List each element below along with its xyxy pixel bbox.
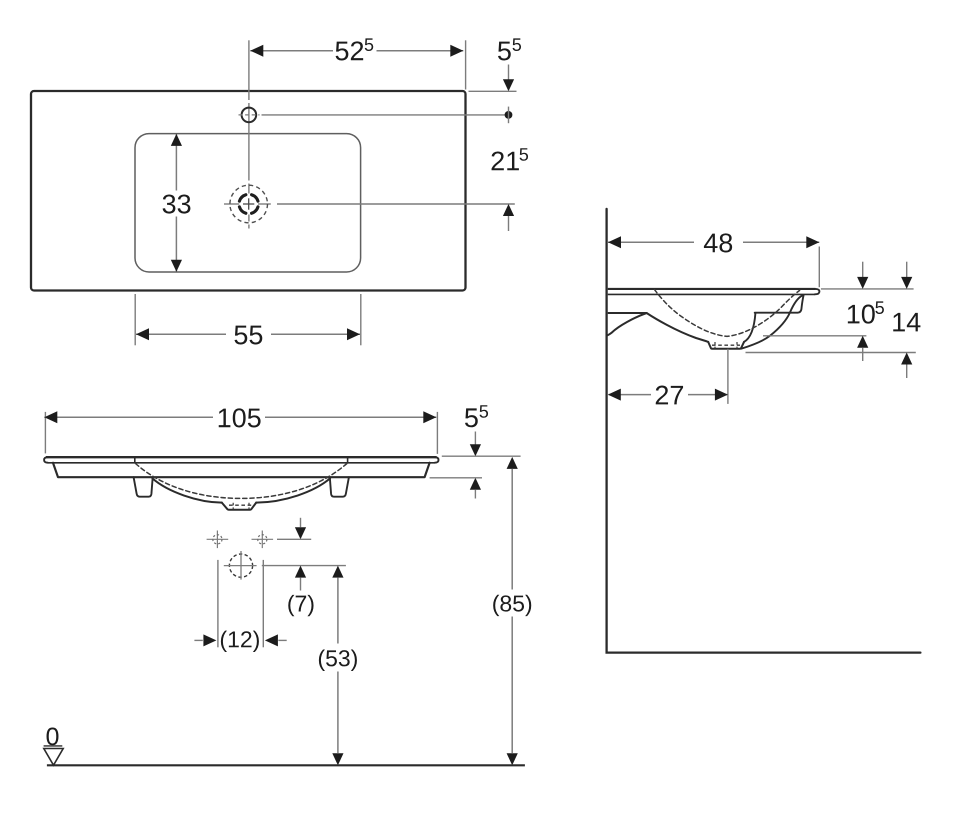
front view: bowl edge tick right [347,457,349,463]
dim 27: dimension line [609,394,652,396]
dim (12): right arrow tail [278,639,286,641]
dim 14: up arrow tail [906,365,908,379]
dim 27: right arrow [715,389,728,401]
dim 55: left extension line [134,294,136,345]
top view: drain inner arcs [252,207,258,213]
dim (7): arrow tail [300,578,302,591]
dim 33: dimension line [175,134,177,190]
side view: hidden bowl inner surface [655,290,800,337]
dim 5.5 front: up arrow [470,478,481,490]
dim 105: label [219,409,231,428]
front view: body bottom extension line [430,477,482,479]
tap hole level tick [508,107,510,124]
front view: left foot [134,477,153,497]
dim 105: right arrow [423,411,436,423]
front view: rim top edge [46,456,437,458]
side view: drain boss [708,342,744,349]
datum 0: triangle symbol [44,749,63,766]
side view: wall bracket [607,313,647,335]
top view: tap hole circle [242,108,257,123]
dim 10.5: label [848,305,860,324]
front view: right foot [330,477,349,497]
dim 5.5 top: extension of rect top edge [469,90,517,92]
dim 5.5 front: down arrow [470,444,481,456]
dim (85): label [493,595,499,616]
top view: washbasin outer rectangle [31,91,466,291]
front view: drain hidden circle [229,554,252,577]
front view: drain boss [222,503,256,510]
top view: drain horizontal center line [224,203,239,205]
top view: tap hole horizontal center dashes [239,114,260,116]
dim 48: label [704,234,718,253]
fixing hole level: down arrow [295,527,306,539]
dim (85): up arrow [507,457,518,469]
bowl bottom reference line [763,335,866,337]
front view: left fixing hole [207,538,229,540]
dim 105: left extension line [44,412,46,454]
dim 5.5 front: arrow tail [474,432,476,445]
side view: rim front end cap [815,289,820,294]
dim 5.5 front: label [465,408,478,427]
front view: hidden bowl inner surface [136,464,347,499]
datum 0: underline [44,745,63,747]
front view: rim underside edge [48,462,435,464]
front view: hidden drain outlet dashes [229,504,253,506]
front view: bowl outer surface right [256,478,330,502]
dim (12): left extension line [217,560,219,647]
dim 10.5: down arrow tail [862,262,864,277]
dim (53): dimension line [337,578,339,644]
dim 52.5: extension line right [465,40,467,89]
dim (12): left arrow tail [194,639,202,641]
dim (53): down arrow [332,753,343,765]
dim 21.5: arrow tail [508,216,510,231]
front view: drain center cross [224,565,257,567]
side view: drain center line [727,349,729,404]
front view: body outline [53,463,430,477]
dim 105: dimension line [44,416,213,418]
side view: rim top edge [608,288,816,290]
front view: bowl outer surface left [152,478,221,502]
dim 33: label [163,194,176,213]
front view: bowl edge tick left [134,457,136,463]
dim 14: down arrow [901,277,912,289]
dim 48: extension line [818,247,820,288]
drain level reference line [262,565,346,567]
side view: rim top extension line [821,288,914,290]
side view: slab underside and front apron [608,312,647,314]
dim 21.5: label [492,151,504,170]
dim 5.5 front: up arrow tail [474,490,476,499]
front view: right fixing hole [252,538,274,540]
dim 27: label [656,386,668,405]
side view: rim underside edge [608,293,815,295]
dim 48: left arrow [608,236,621,248]
boss bottom reference line [746,352,916,354]
dim 33: down arrow [171,260,182,272]
dim 48: right arrow [806,236,819,248]
side view: hidden drain outlet dashes [712,344,740,346]
dim (12): label [221,631,227,652]
dim 21.5: up arrow [503,204,514,216]
top view: inner basin outline [135,134,361,272]
dim 52.5: left arrow [250,45,263,57]
dim 5.5 top: down arrow [503,79,514,91]
dim 14: label [893,313,905,332]
dim (85): dimension line [511,469,513,590]
side view: bowl outer surface [647,313,709,342]
dim (12): right extension line [262,560,264,647]
dim 55: label [234,326,247,345]
dim 10.5: up arrow [857,336,868,348]
dim (53): up arrow [332,566,343,578]
dim (7): up arrow [295,566,306,578]
top view: drain center cross [243,203,254,205]
fixing hole level: down arrow tail [300,518,302,527]
dim 33: up arrow [171,134,182,146]
dim 105: right extension line [436,412,438,454]
dim 55: right extension line [360,294,362,345]
side view: wall and floor line [607,209,921,653]
top view: drain dashed circle [230,185,268,223]
front view: rim right end cap [435,457,439,463]
tap hole leader line [262,114,506,116]
dim 52.5: label [336,42,349,61]
dim (7): label [288,595,294,616]
dim 5.5 top: label [498,42,511,61]
dim (12): right arrow [265,634,278,646]
dim (12): left arrow [203,634,216,646]
dim 14: down arrow tail [906,262,908,277]
front view: rim left end cap [44,457,48,463]
fixing hole level line [277,538,311,540]
top view: vertical center line through tap hole and drain [248,40,250,100]
dim 55: left arrow [136,328,149,340]
datum 0: label [47,728,59,746]
dim 52.5: dimension line [250,50,333,52]
dim 55: dimension line [136,333,226,335]
floor line [47,764,525,766]
dim 105: left arrow [44,411,57,423]
dim 55: right arrow [347,328,360,340]
dim 48: dimension line [608,241,694,243]
dim 52.5: right arrow [450,45,463,57]
dim (53): label [319,650,325,671]
dim (85): down arrow [507,753,518,765]
dim 10.5: down arrow [857,277,868,289]
front view: rim top extension line [442,455,521,457]
dim 14: up arrow [901,353,912,365]
tap hole level dot [505,111,513,119]
dim 5.5 top: arrow tail [508,65,510,80]
dim 27: left arrow [608,389,621,401]
dim 10.5: up arrow tail [862,348,864,361]
